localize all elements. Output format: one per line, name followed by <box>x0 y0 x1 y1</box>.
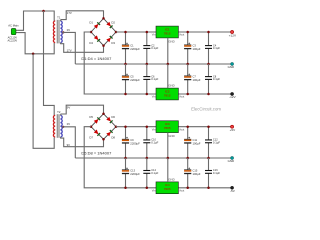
svg-text:0V: 0V <box>67 122 70 126</box>
wire secondary 17V bottom tap to bridge <box>60 43 103 53</box>
diode D8 <box>106 130 115 139</box>
capacitor C8 <box>205 64 220 94</box>
node C10 top <box>146 125 149 128</box>
wire AC neutral to transformers <box>18 33 55 54</box>
svg-text:17V: 17V <box>67 11 72 15</box>
regulator IC2 7912 <box>156 88 178 100</box>
diode D6 <box>106 115 115 123</box>
capacitor C9 <box>122 127 140 158</box>
svg-text:GND: GND <box>228 159 234 163</box>
terminal +12V <box>229 31 237 38</box>
svg-text:GND: GND <box>168 40 174 44</box>
regulator IC1 7812 <box>156 26 178 38</box>
capacitor C10 <box>143 127 158 158</box>
svg-text:D1: D1 <box>89 21 93 25</box>
pin labels IC2 <box>152 95 185 99</box>
node C12 top <box>207 125 210 128</box>
svg-text:0.1µF: 0.1µF <box>213 77 220 81</box>
svg-text:0.1µF: 0.1µF <box>151 171 158 175</box>
svg-text:D4: D4 <box>89 41 93 45</box>
capacitor C5 <box>122 64 140 94</box>
wire IC3 GND pin <box>168 133 175 158</box>
node C1 bottom <box>124 63 127 66</box>
svg-text:Vout: Vout <box>179 127 184 131</box>
pin labels IC3 <box>152 127 185 131</box>
node bridge bottom <box>102 44 105 47</box>
capacitor C11 <box>184 127 201 158</box>
svg-text:17V: 17V <box>67 49 72 53</box>
svg-text:AC220V: AC220V <box>7 38 17 42</box>
wire secondary 17V top tap to bridge <box>60 11 103 21</box>
terminal -5V <box>230 186 236 193</box>
node bridge bottom <box>102 138 105 141</box>
diode D7 <box>89 129 100 139</box>
svg-text:0.1µF: 0.1µF <box>151 140 158 144</box>
svg-text:D1:D4 = 1N4007: D1:D4 = 1N4007 <box>81 56 112 61</box>
svg-text:Vin: Vin <box>152 95 156 99</box>
node AC neutral branch <box>32 53 35 56</box>
wire secondary 9V bottom tap to bridge <box>60 137 103 147</box>
svg-text:D5: D5 <box>89 115 93 119</box>
wire AC neutral drop to T2 <box>33 54 54 149</box>
wire secondary 9V top tap to bridge <box>60 105 103 115</box>
node bridge left <box>90 31 93 34</box>
node C9 top <box>124 125 127 128</box>
svg-text:-12V: -12V <box>229 95 236 99</box>
svg-text:100µF: 100µF <box>193 47 201 51</box>
wire bridge diamond <box>91 114 116 139</box>
node C1 top <box>124 31 127 34</box>
diode D4 <box>89 35 100 45</box>
svg-text:D5:D8 = 1N4007: D5:D8 = 1N4007 <box>81 151 112 156</box>
node C10 bottom <box>146 157 149 160</box>
svg-text:T2: T2 <box>57 110 61 114</box>
diode D1 <box>89 21 100 29</box>
node IC1 GND <box>167 63 170 66</box>
capacitor C3 <box>184 32 201 64</box>
svg-text:0.1µF: 0.1µF <box>213 171 220 175</box>
node bridge top <box>102 113 105 116</box>
wire IC2 GND pin <box>168 64 175 88</box>
node C16 bottom <box>207 187 210 190</box>
svg-text:D6: D6 <box>111 115 115 119</box>
capacitor C2 <box>143 32 158 64</box>
svg-text:D8: D8 <box>111 135 115 139</box>
svg-text:7812: 7812 <box>164 31 171 35</box>
capacitor C1 <box>122 32 140 64</box>
watermark ElecCircuit.com <box>191 106 221 111</box>
wire GND rail <box>75 157 230 159</box>
svg-text:ElecCircuit.com: ElecCircuit.com <box>191 106 221 111</box>
node IC3 GND <box>167 157 170 160</box>
wire 0V centre tap to GND rail <box>62 28 75 64</box>
capacitor C13 <box>122 158 140 188</box>
svg-text:+5V: +5V <box>230 128 237 132</box>
wire AC live to transformers <box>18 11 55 30</box>
svg-text:GND: GND <box>168 134 174 138</box>
node C2 top <box>146 31 149 34</box>
wire 0V centre tap to GND rail <box>62 122 75 158</box>
capacitor C6 <box>143 64 158 94</box>
svg-text:GND: GND <box>168 177 174 181</box>
node C13 bottom <box>124 187 127 190</box>
node bridge top <box>102 17 105 20</box>
svg-text:GND: GND <box>168 84 174 88</box>
terminal GND <box>228 157 234 164</box>
node C4 bottom <box>207 63 210 66</box>
wire -V rail (bridge negative to regulator) <box>84 32 230 94</box>
diode D2 <box>106 21 115 28</box>
capacitor C4 <box>205 32 220 64</box>
svg-text:0.1µF: 0.1µF <box>213 46 220 50</box>
svg-text:Vin: Vin <box>152 33 156 37</box>
svg-text:7805: 7805 <box>164 126 171 130</box>
svg-text:2200µF: 2200µF <box>130 47 140 51</box>
transformer T2 <box>53 110 62 138</box>
node C3 bottom <box>186 63 189 66</box>
svg-text:T1: T1 <box>57 15 61 19</box>
svg-text:9V: 9V <box>67 143 71 147</box>
node bridge right <box>115 125 118 128</box>
wire IC1 GND pin <box>168 38 175 64</box>
wire AC live drop to T2 <box>44 11 55 115</box>
pin labels IC1 <box>152 33 185 37</box>
svg-text:D2: D2 <box>111 21 115 25</box>
svg-text:0.1µF: 0.1µF <box>151 46 158 50</box>
regulator IC4 7905 <box>156 182 178 194</box>
regulator IC3 7805 <box>156 121 178 133</box>
node AC live branch <box>42 10 45 13</box>
AC plug <box>7 24 19 43</box>
label D1:D4 = 1N4007 <box>81 56 112 61</box>
svg-text:2200µF: 2200µF <box>130 78 140 82</box>
svg-text:7905: 7905 <box>164 187 171 191</box>
diode D3 <box>106 36 115 45</box>
node bridge right <box>115 31 118 34</box>
node C12 bottom <box>207 157 210 160</box>
diode D5 <box>89 115 100 124</box>
pin labels IC4 <box>152 188 185 192</box>
wire +V rail <box>116 31 231 33</box>
capacitor C15 <box>184 158 201 188</box>
node C7 bottom <box>186 93 189 96</box>
node C11 top <box>186 125 189 128</box>
wire IC4 GND pin <box>168 158 175 182</box>
svg-text:100µF: 100µF <box>193 141 201 145</box>
svg-text:Vout: Vout <box>179 188 184 192</box>
terminal GND <box>228 63 234 70</box>
svg-text:100µF: 100µF <box>193 172 201 176</box>
svg-text:Vout: Vout <box>179 95 184 99</box>
svg-text:GND: GND <box>228 65 234 69</box>
capacitor C12 <box>205 127 220 158</box>
svg-text:Vout: Vout <box>179 33 184 37</box>
node C5 bottom <box>124 93 127 96</box>
node C3 top <box>186 31 189 34</box>
svg-text:2200µF: 2200µF <box>130 141 140 145</box>
svg-text:AC Main: AC Main <box>8 24 19 28</box>
svg-text:Vin: Vin <box>152 188 156 192</box>
capacitor C14 <box>143 158 158 188</box>
svg-text:7912: 7912 <box>164 93 171 97</box>
svg-text:+12V: +12V <box>229 34 237 38</box>
svg-text:0V: 0V <box>67 28 70 32</box>
wire GND rail <box>75 63 230 65</box>
svg-text:Vin: Vin <box>152 127 156 131</box>
svg-text:0.1µF: 0.1µF <box>151 77 158 81</box>
node C11 bottom <box>186 157 189 160</box>
wire +V rail <box>116 126 231 128</box>
terminal +5V <box>230 125 237 132</box>
terminal -12V <box>229 93 236 100</box>
svg-text:0.1µF: 0.1µF <box>213 140 220 144</box>
svg-text:D3: D3 <box>111 41 115 45</box>
wire -V rail (bridge negative to regulator) <box>84 127 230 188</box>
node bridge left <box>90 125 93 128</box>
label D5:D8 = 1N4007 <box>81 151 112 156</box>
capacitor C7 <box>184 64 201 94</box>
svg-text:D7: D7 <box>89 135 93 139</box>
svg-text:9V: 9V <box>67 106 71 110</box>
node C14 bottom <box>146 187 149 190</box>
node C6 bottom <box>146 93 149 96</box>
node C8 bottom <box>207 93 210 96</box>
node C9 bottom <box>124 157 127 160</box>
node C15 bottom <box>186 187 189 190</box>
transformer T1 <box>53 15 62 43</box>
svg-text:100µF: 100µF <box>193 78 201 82</box>
node C4 top <box>207 31 210 34</box>
svg-text:2200µF: 2200µF <box>130 172 140 176</box>
wire bridge diamond <box>91 18 116 45</box>
capacitor C16 <box>205 158 220 188</box>
node C2 bottom <box>146 63 149 66</box>
